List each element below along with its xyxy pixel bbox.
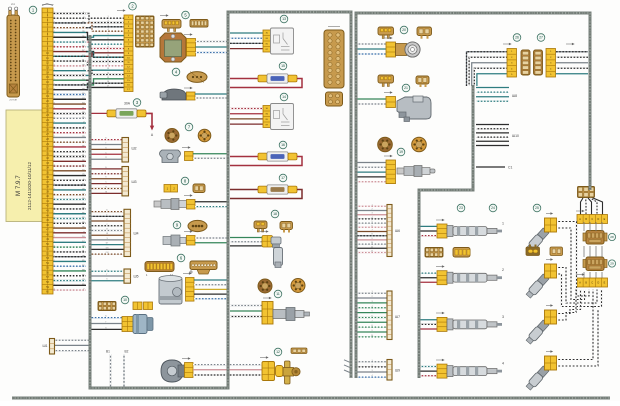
engine harness end block xyxy=(578,187,595,198)
wire ECU pin 53 xyxy=(52,260,86,262)
wire xyxy=(357,231,387,233)
wire xyxy=(357,210,387,212)
fuse item 15 xyxy=(230,62,302,87)
wire xyxy=(193,374,262,376)
throttle position sensor assembly xyxy=(159,276,194,305)
main relay item 13 xyxy=(263,15,294,54)
wire group: trunk to socket Sh4 xyxy=(90,210,124,254)
wire xyxy=(90,229,124,231)
wire xyxy=(357,361,387,363)
wire xyxy=(357,252,387,254)
wire ECU pin 6 xyxy=(52,36,86,38)
wire ECU pin 48 xyxy=(52,237,86,239)
wire xyxy=(357,376,387,378)
oxygen sensor control xyxy=(154,199,195,210)
svg-text:Ш3: Ш3 xyxy=(132,180,137,184)
wires to main relay xyxy=(230,33,263,49)
svg-text:16: 16 xyxy=(281,143,285,147)
wire xyxy=(357,371,387,373)
fuse and relay box xyxy=(136,16,155,47)
rough road sensor xyxy=(160,89,195,100)
wires crank sensor to inline connector xyxy=(193,365,262,375)
wire xyxy=(469,57,507,86)
wire ECU pin 40 xyxy=(52,198,86,200)
wire xyxy=(357,218,387,220)
braid wire hooks bottom xyxy=(344,360,351,373)
socket Sh3 xyxy=(122,167,137,196)
wire to fuse box pin 8 xyxy=(86,42,124,48)
wire xyxy=(476,132,509,134)
wire xyxy=(420,323,437,325)
wires to knock sensor lower xyxy=(230,306,262,317)
wire ECU pin 41 xyxy=(52,203,86,205)
wire group to socket Sh6 xyxy=(357,204,400,256)
wire ECU pin 51 xyxy=(52,251,86,253)
ignition harness connectors item 5 xyxy=(162,11,208,31)
connectors item 21 xyxy=(378,75,429,92)
wire xyxy=(90,178,122,180)
wire xyxy=(90,158,122,160)
wire ECU pin 1 xyxy=(52,12,86,14)
camshaft connector item 4 xyxy=(172,68,207,82)
wire xyxy=(90,280,124,282)
wire ECU pin 3 xyxy=(52,22,86,24)
harness branch to coils fan point xyxy=(419,85,473,378)
wire xyxy=(90,215,124,217)
svg-text:3: 3 xyxy=(502,315,504,319)
wire xyxy=(357,326,387,328)
wires diagnostic oxygen sensor xyxy=(357,163,386,182)
fuel pump relay item 14 xyxy=(263,93,294,129)
wire to fuse box pin 10 xyxy=(86,52,124,58)
wire ECU pin 18 xyxy=(52,93,86,95)
connector 26 xyxy=(507,34,521,77)
wire to fuse box pin 5 xyxy=(86,36,124,38)
wire ECU pin 9 xyxy=(52,51,86,53)
spark plug 3 xyxy=(525,304,557,345)
svg-text:Ш5: Ш5 xyxy=(134,275,139,279)
wire xyxy=(90,144,122,146)
wire ECU pin 20 xyxy=(52,103,86,105)
wire ECU pin 23 xyxy=(52,117,86,119)
wire ECU pin 37 xyxy=(52,184,86,186)
svg-text:2112-1411020-10/11/12: 2112-1411020-10/11/12 xyxy=(27,162,32,210)
svg-text:20: 20 xyxy=(402,28,406,32)
diagnostic connector item 6 xyxy=(145,254,185,277)
wire to fuse box pin 2 xyxy=(86,13,124,22)
wire ECU pin 10 xyxy=(52,55,86,57)
injector 2 xyxy=(437,268,504,285)
svg-text:25: 25 xyxy=(535,206,539,210)
wire xyxy=(556,56,588,58)
wire ECU pin 24 xyxy=(52,122,86,124)
wire ECU pin 29 xyxy=(52,146,86,148)
coolant temperature sensor xyxy=(163,235,195,246)
wire ECU pin 54 xyxy=(52,265,86,267)
svg-text:17: 17 xyxy=(281,176,285,180)
wire ECU pin 46 xyxy=(52,227,86,229)
wire xyxy=(467,52,508,86)
wire xyxy=(357,239,387,241)
wire ECU pin 22 xyxy=(52,113,86,115)
wire xyxy=(357,205,387,207)
wire xyxy=(585,198,588,215)
wire to fuse box pin 17 xyxy=(86,80,124,87)
wire ECU pin 31 xyxy=(52,156,86,158)
svg-text:10: 10 xyxy=(123,298,127,302)
wire xyxy=(90,317,122,319)
spark plug mating connectors xyxy=(526,245,563,256)
wire xyxy=(90,188,122,190)
wire xyxy=(357,292,387,294)
wires phase sensor xyxy=(357,44,386,54)
wire to fuse box pin 14 xyxy=(86,71,124,75)
wires speed sensor xyxy=(230,238,262,246)
svg-text:2: 2 xyxy=(502,268,504,272)
wire group: trunk to plug Sh1 (3 wires left) xyxy=(54,340,90,350)
wire ECU pin 12 xyxy=(52,65,86,67)
speed sensor connectors item 18 xyxy=(254,210,293,232)
svg-text:28: 28 xyxy=(610,235,614,239)
wire xyxy=(54,344,90,346)
wire xyxy=(90,253,124,255)
wire xyxy=(90,183,122,185)
wire xyxy=(357,316,387,318)
harness right box outline xyxy=(356,13,590,378)
connector X2 to fuse box xyxy=(124,2,136,91)
lower sensor with connector xyxy=(262,297,310,324)
connector pad item 11 xyxy=(98,296,129,310)
wire group: trunk to idle valve connector xyxy=(90,316,122,330)
svg-text:В2: В2 xyxy=(125,350,129,354)
wire ECU pin 13 xyxy=(52,70,86,72)
wire xyxy=(581,198,584,215)
wire ECU pin 21 xyxy=(52,108,86,110)
wire xyxy=(420,328,437,330)
idle air control valve xyxy=(122,315,153,334)
svg-text:В1: В1 xyxy=(106,350,110,354)
wire xyxy=(357,302,387,304)
wire xyxy=(344,360,351,363)
wire xyxy=(420,272,437,274)
wires oxygen sensor xyxy=(195,202,228,207)
svg-text:Ш1: Ш1 xyxy=(43,344,48,348)
HV wires to spark plug 3 xyxy=(557,290,581,314)
socket Sh2 xyxy=(122,138,137,163)
wire xyxy=(357,366,387,368)
svg-text:Ш9: Ш9 xyxy=(395,369,400,373)
wire ECU pin 7 xyxy=(52,41,86,43)
connector direction marks xyxy=(117,9,585,361)
wire to fuse box pin 4 xyxy=(86,23,124,31)
wires knock sensor xyxy=(193,154,228,159)
wire xyxy=(593,198,603,215)
svg-text:С: С xyxy=(591,281,593,284)
wire ECU pin 49 xyxy=(52,241,86,243)
wire xyxy=(476,96,509,98)
wire ECU pin 35 xyxy=(52,175,86,177)
wire xyxy=(357,214,387,216)
wires throttle sensor xyxy=(194,280,228,299)
wire xyxy=(420,230,437,232)
wire ECU pin 33 xyxy=(52,165,86,167)
wire xyxy=(420,370,437,372)
wire group to socket Sh9 xyxy=(357,360,400,381)
wire ECU pin 27 xyxy=(52,136,86,138)
canister purge valve xyxy=(386,96,431,122)
injector 1 xyxy=(437,222,504,239)
wire xyxy=(474,68,507,86)
ignition coil 2-3 xyxy=(583,257,616,271)
injector 3 wires xyxy=(420,320,437,329)
svg-text:11: 11 xyxy=(276,292,280,296)
wire xyxy=(476,91,509,93)
injector mating connectors xyxy=(425,248,470,258)
crank sensor inline connector xyxy=(262,362,283,381)
wire group: trunk to socket Sh5 xyxy=(90,269,124,280)
connector label item 12 xyxy=(274,348,282,356)
ECU connector X1 pin strip xyxy=(29,4,53,295)
wires to fuel pump relay xyxy=(230,109,263,125)
svg-text:21 9 49: 21 9 49 xyxy=(9,99,17,101)
wire xyxy=(344,365,351,368)
wire xyxy=(357,336,387,338)
wire to fuse box pin 13 xyxy=(86,70,124,75)
wires V6 stubs Sh10 xyxy=(476,125,519,146)
ignition module xyxy=(160,33,196,62)
wire xyxy=(54,339,90,341)
wire xyxy=(420,319,437,321)
wire xyxy=(556,73,588,75)
wire ECU pin 5 xyxy=(52,31,86,33)
wire xyxy=(591,198,598,215)
wire xyxy=(420,277,437,279)
svg-text:1: 1 xyxy=(502,222,504,226)
svg-text:14: 14 xyxy=(282,95,286,99)
svg-text:Ш6: Ш6 xyxy=(395,229,400,233)
wire xyxy=(357,235,387,237)
wire ECU pin 14 xyxy=(52,74,86,76)
svg-text:D: D xyxy=(597,281,599,284)
wire xyxy=(556,67,588,69)
wire xyxy=(477,74,507,86)
wire ECU pin 32 xyxy=(52,160,86,162)
wire xyxy=(344,370,351,373)
wire xyxy=(90,192,122,194)
wire ECU pin 28 xyxy=(52,141,86,143)
wire xyxy=(90,328,122,330)
wire ECU pin 39 xyxy=(52,194,86,196)
wire group: ECU pins to trunk (rows 1-59) xyxy=(52,12,86,291)
socket Sh5 xyxy=(124,269,139,283)
wire ECU pin 52 xyxy=(52,256,86,258)
svg-text:Ш2: Ш2 xyxy=(132,147,137,151)
wire xyxy=(90,239,124,241)
wires coolant temp sensor xyxy=(195,238,228,243)
wire xyxy=(357,243,387,245)
wire to fuse box pin 16 xyxy=(86,83,124,90)
wire ECU pin 38 xyxy=(52,189,86,191)
svg-text:18: 18 xyxy=(273,212,277,216)
wire xyxy=(357,247,387,249)
wire ECU pin 17 xyxy=(52,89,86,91)
wire to fuse box pin 6 xyxy=(86,32,124,39)
coil pin stubs xyxy=(584,222,602,278)
wire ECU pin 30 xyxy=(52,151,86,153)
svg-text:D: D xyxy=(597,218,599,221)
wire xyxy=(357,297,387,299)
wire to fuse box pin 1 xyxy=(86,17,124,19)
injector 2 wires xyxy=(420,273,437,282)
HV wires to spark plug 1 xyxy=(557,222,590,297)
coil connector strip bottom xyxy=(577,278,608,287)
wire xyxy=(476,145,509,147)
wire ECU pin 15 xyxy=(52,79,86,81)
round connector pair item 12 xyxy=(258,279,305,298)
wire xyxy=(472,63,507,86)
wire ECU pin 43 xyxy=(52,213,86,215)
wires V6 stubs Sh8 xyxy=(476,88,517,102)
socket Sh4 xyxy=(124,209,139,256)
wire xyxy=(357,307,387,309)
wire xyxy=(193,369,262,371)
wire group: trunk to socket Sh2 xyxy=(90,138,122,160)
svg-text:23: 23 xyxy=(459,206,463,210)
svg-text:29: 29 xyxy=(610,262,614,266)
wire xyxy=(90,323,122,325)
wire xyxy=(90,153,122,155)
svg-text:Ш7: Ш7 xyxy=(395,315,400,319)
svg-text:27: 27 xyxy=(539,36,543,40)
round connector pair item 19 xyxy=(378,137,427,156)
wire ECU pin 59 xyxy=(52,289,86,291)
wire ECU pin 57 xyxy=(52,280,86,282)
wire xyxy=(476,136,509,138)
svg-text:24: 24 xyxy=(491,206,495,210)
wire xyxy=(357,331,387,333)
coil connector strip top xyxy=(577,215,608,224)
svg-text:С1: С1 xyxy=(508,166,512,170)
wire xyxy=(420,366,437,368)
wire xyxy=(556,62,588,64)
ignition coil 1-4 xyxy=(583,231,616,245)
wire xyxy=(90,244,124,246)
wire xyxy=(90,225,124,227)
wire ECU pin 26 xyxy=(52,132,86,134)
connector Sh1 plug xyxy=(43,339,55,355)
wire ECU pin 47 xyxy=(52,232,86,234)
wires fan from V4 to coil connector xyxy=(581,198,603,215)
svg-text:21: 21 xyxy=(404,86,408,90)
connector 27 xyxy=(537,34,555,77)
fuse F1 30A xyxy=(90,99,154,137)
labels items 23 24 xyxy=(457,204,465,212)
wire xyxy=(90,168,122,170)
injector 4 xyxy=(437,362,504,379)
spark plug 2 xyxy=(525,258,557,299)
wire xyxy=(90,148,122,150)
wire ECU pin 16 xyxy=(52,84,86,86)
wire ECU pin 19 xyxy=(52,98,86,100)
wire xyxy=(357,226,387,228)
injector 3 xyxy=(437,315,504,332)
label item 25 xyxy=(533,204,541,212)
camshaft phase sensor xyxy=(386,42,420,57)
ground wires V1 V2 xyxy=(106,350,129,388)
HV wires to spark plug 4 xyxy=(557,290,594,360)
wire ECU pin 34 xyxy=(52,170,86,172)
svg-text:12: 12 xyxy=(276,350,280,354)
crank sensor mating part xyxy=(283,361,300,384)
spark plug 4 xyxy=(525,350,557,391)
svg-text:15: 15 xyxy=(281,64,285,68)
ECU M7.9.7 controller box xyxy=(6,110,44,222)
svg-text:19: 19 xyxy=(399,150,403,154)
wire group: trunk to block connector 2 (rows 1-17) xyxy=(86,13,124,89)
inter-harness connector block X3 xyxy=(324,27,344,107)
svg-text:26: 26 xyxy=(515,36,519,40)
wire xyxy=(476,128,509,130)
wire ECU pin 36 xyxy=(52,179,86,181)
wire xyxy=(90,139,122,141)
svg-text:30A: 30A xyxy=(124,102,131,106)
svg-text:М 7.9.7: М 7.9.7 xyxy=(15,175,22,196)
wire xyxy=(420,375,437,377)
wire group: trunk to socket Sh3 xyxy=(90,167,122,194)
wire xyxy=(476,87,509,89)
wire xyxy=(357,321,387,323)
wire xyxy=(90,220,124,222)
wire ECU pin 4 xyxy=(52,27,86,29)
harness trunk V1 (left) xyxy=(90,12,351,388)
wire to fuse box pin 3 xyxy=(86,26,124,29)
wire xyxy=(90,270,124,272)
svg-text:Ш10: Ш10 xyxy=(512,134,519,138)
wire xyxy=(476,100,509,102)
connector pair yellow xyxy=(133,302,153,310)
diagnostic oxygen sensor xyxy=(386,160,435,184)
wire to fuse box pin 15 xyxy=(86,79,124,85)
wire xyxy=(476,124,509,126)
connectors item 8 xyxy=(164,177,205,192)
wires engine harness rows to connectors 26-27 xyxy=(467,52,589,86)
injector 1 wires xyxy=(420,226,437,235)
wire xyxy=(420,235,437,237)
wire xyxy=(556,51,588,53)
fuse item 16 xyxy=(230,141,302,165)
svg-text:13: 13 xyxy=(282,17,286,21)
wire ECU pin 44 xyxy=(52,218,86,220)
wire ECU pin 50 xyxy=(52,246,86,248)
connector item 9 xyxy=(173,220,207,231)
svg-text:Ш4: Ш4 xyxy=(134,232,139,236)
fuse item 17 xyxy=(230,174,302,198)
wire ECU pin 45 xyxy=(52,222,86,224)
small 3-pin connector xyxy=(291,348,307,354)
wire xyxy=(90,173,122,175)
wire ECU pin 55 xyxy=(52,270,86,272)
svg-text:С: С xyxy=(591,218,593,221)
wire stub C1 xyxy=(476,166,512,170)
wire xyxy=(476,140,509,142)
wire ECU pin 25 xyxy=(52,127,86,129)
wire group to socket Sh7 xyxy=(357,291,400,340)
bottom harness braid xyxy=(12,397,610,400)
wire xyxy=(90,211,124,213)
wire ECU pin 56 xyxy=(52,275,86,277)
wire xyxy=(420,281,437,283)
wire ECU pin 8 xyxy=(52,46,86,48)
